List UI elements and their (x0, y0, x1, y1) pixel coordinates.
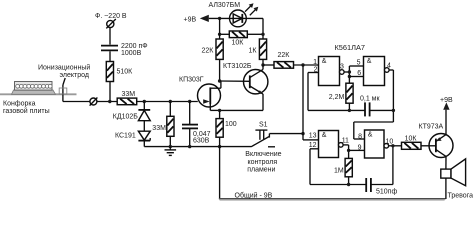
svg-text:10К: 10К (405, 136, 418, 143)
wire S1 to node (269, 133, 303, 135)
ground (165, 147, 177, 156)
NAND gate C (pins 13,12 -> 11) (319, 131, 344, 158)
svg-text:10К: 10К (232, 40, 245, 47)
svg-text:КП303Г: КП303Г (179, 77, 204, 84)
svg-text:электрод: электрод (60, 72, 89, 79)
wire +9В to LED (209, 17, 230, 19)
long vertical to common rail (219, 147, 221, 199)
svg-text:22К: 22К (202, 48, 215, 55)
wire node to pin 13 (302, 134, 304, 140)
svg-text:2200 пФ: 2200 пФ (121, 43, 148, 50)
svg-text:Конфорка: Конфорка (3, 101, 36, 108)
svg-text:&: & (322, 132, 327, 139)
lower node wire (144, 146, 219, 148)
junction pin1 vertical (301, 63, 304, 66)
pin 12 wire (310, 148, 319, 150)
svg-text:8: 8 (358, 133, 362, 140)
svg-text:22К: 22К (278, 52, 291, 59)
svg-text:12: 12 (309, 142, 317, 149)
wire LED right down (246, 17, 263, 19)
svg-text:S1: S1 (259, 121, 268, 128)
mains feedthrough symbol (circle-slash) (107, 20, 114, 27)
svg-text:630В: 630В (193, 137, 210, 144)
main wire to JFET gate (137, 101, 198, 103)
output 4 wire down to pin 8 (389, 69, 393, 71)
resistor 22К vertical (216, 39, 223, 59)
capacitor 510пф (366, 178, 393, 192)
resistor 1М (345, 158, 352, 184)
resistor 10К (base КТ973А) (402, 142, 437, 149)
bottom feedback wire (310, 184, 366, 186)
output 11 wire (343, 144, 349, 146)
wire left column (219, 18, 221, 39)
pin 5 wire (349, 65, 363, 67)
resistor 1К vertical (259, 39, 266, 59)
ionization electrode rod (62, 85, 64, 102)
svg-text:контроля: контроля (248, 159, 278, 166)
svg-text:1М: 1М (334, 168, 344, 175)
svg-text:АЛ307БМ: АЛ307БМ (209, 2, 241, 9)
pin 6 wire (349, 76, 363, 78)
svg-text:0,1 мк: 0,1 мк (360, 95, 380, 102)
resistor 510К (106, 62, 113, 82)
electrode pointer line (63, 78, 65, 85)
svg-text:Общий - 9В: Общий - 9В (235, 191, 273, 199)
NAND gate B (pins 5,6 -> 4) (364, 57, 390, 86)
svg-text:3: 3 (340, 64, 344, 71)
speaker (Тревога) (441, 159, 466, 199)
svg-text:4: 4 (387, 63, 391, 70)
output 10 wire (389, 145, 402, 147)
node dots on main wire (143, 100, 146, 103)
svg-text:11: 11 (342, 138, 349, 145)
svg-text:&: & (322, 58, 327, 65)
capacitor 0,1 мк (365, 102, 393, 116)
pin 9 wire (349, 149, 365, 151)
stove surface line (0, 93, 77, 95)
svg-text:Тревога: Тревога (448, 192, 474, 199)
wire (109, 51, 111, 61)
svg-text:9: 9 (358, 145, 362, 152)
NAND gate A (pins 1,2 -> 3) (319, 57, 345, 86)
wire up to output 10 (392, 146, 394, 185)
svg-text:газовой плиты: газовой плиты (3, 107, 50, 115)
svg-text:&: & (367, 58, 372, 65)
zener КС191 (138, 121, 150, 147)
svg-text:5: 5 (357, 59, 361, 66)
resistor 100 (216, 110, 223, 146)
resistor 2,2М (346, 83, 353, 110)
resistor 33М vertical (167, 102, 174, 147)
svg-text:2,2М: 2,2М (329, 94, 345, 101)
svg-text:1К: 1К (249, 48, 258, 55)
capacitor 0,047 630В (182, 102, 198, 147)
resistor 10К (parallel to LED) (220, 31, 263, 38)
svg-text:+9В: +9В (184, 17, 197, 24)
transistor КП303Г (JFET) (198, 81, 221, 110)
svg-text:1000В: 1000В (121, 50, 142, 57)
wire feedthrough to node (97, 101, 117, 103)
svg-text:33М: 33М (122, 91, 136, 98)
capacitor 2200 пФ 1000В (101, 45, 118, 47)
collector node wire + resistor 22К horizontal (263, 62, 319, 69)
svg-text:510К: 510К (117, 69, 134, 76)
feedback wire (pin2 to cap) (308, 109, 365, 111)
svg-text:КД102Б: КД102Б (113, 114, 138, 121)
svg-text:1: 1 (313, 59, 317, 66)
gas burner (Конфорка газовой плиты) (12, 82, 56, 95)
resistor 33М horizontal (117, 98, 137, 105)
emitter/source wire (220, 109, 263, 111)
common rail Общий -9В (219, 198, 446, 200)
svg-text:КТ973А: КТ973А (419, 123, 444, 130)
svg-text:Включение: Включение (245, 151, 281, 158)
svg-text:Ф. ~220 В: Ф. ~220 В (95, 13, 127, 20)
pin 2 wire (308, 72, 319, 74)
svg-text:Ионизационный: Ионизационный (38, 64, 90, 72)
diode КД102Б (138, 102, 150, 121)
wire electrode to feedthrough (63, 101, 90, 103)
feedthrough insulator symbol (circle-slash) on electrode wire (90, 98, 97, 105)
svg-text:6: 6 (357, 70, 361, 77)
node dot (108, 100, 111, 103)
svg-text:пламени: пламени (247, 166, 275, 173)
wire 510К to node (109, 82, 111, 102)
svg-text:100: 100 (225, 121, 237, 128)
svg-text:К561ЛА7: К561ЛА7 (335, 43, 366, 52)
svg-text:33М: 33М (152, 125, 166, 132)
switch S1 wire from lower node (220, 146, 251, 148)
output 3 wire (344, 71, 349, 73)
NAND gate D (pins 8,9 -> 10) (365, 130, 389, 158)
svg-text:&: & (368, 132, 373, 139)
svg-text:13: 13 (309, 132, 317, 139)
svg-text:510пф: 510пф (376, 189, 397, 196)
svg-text:КС191: КС191 (115, 133, 136, 140)
electrode insulator bushing (59, 88, 67, 94)
svg-text:КТ3102Б: КТ3102Б (223, 63, 252, 70)
wire (109, 28, 111, 45)
